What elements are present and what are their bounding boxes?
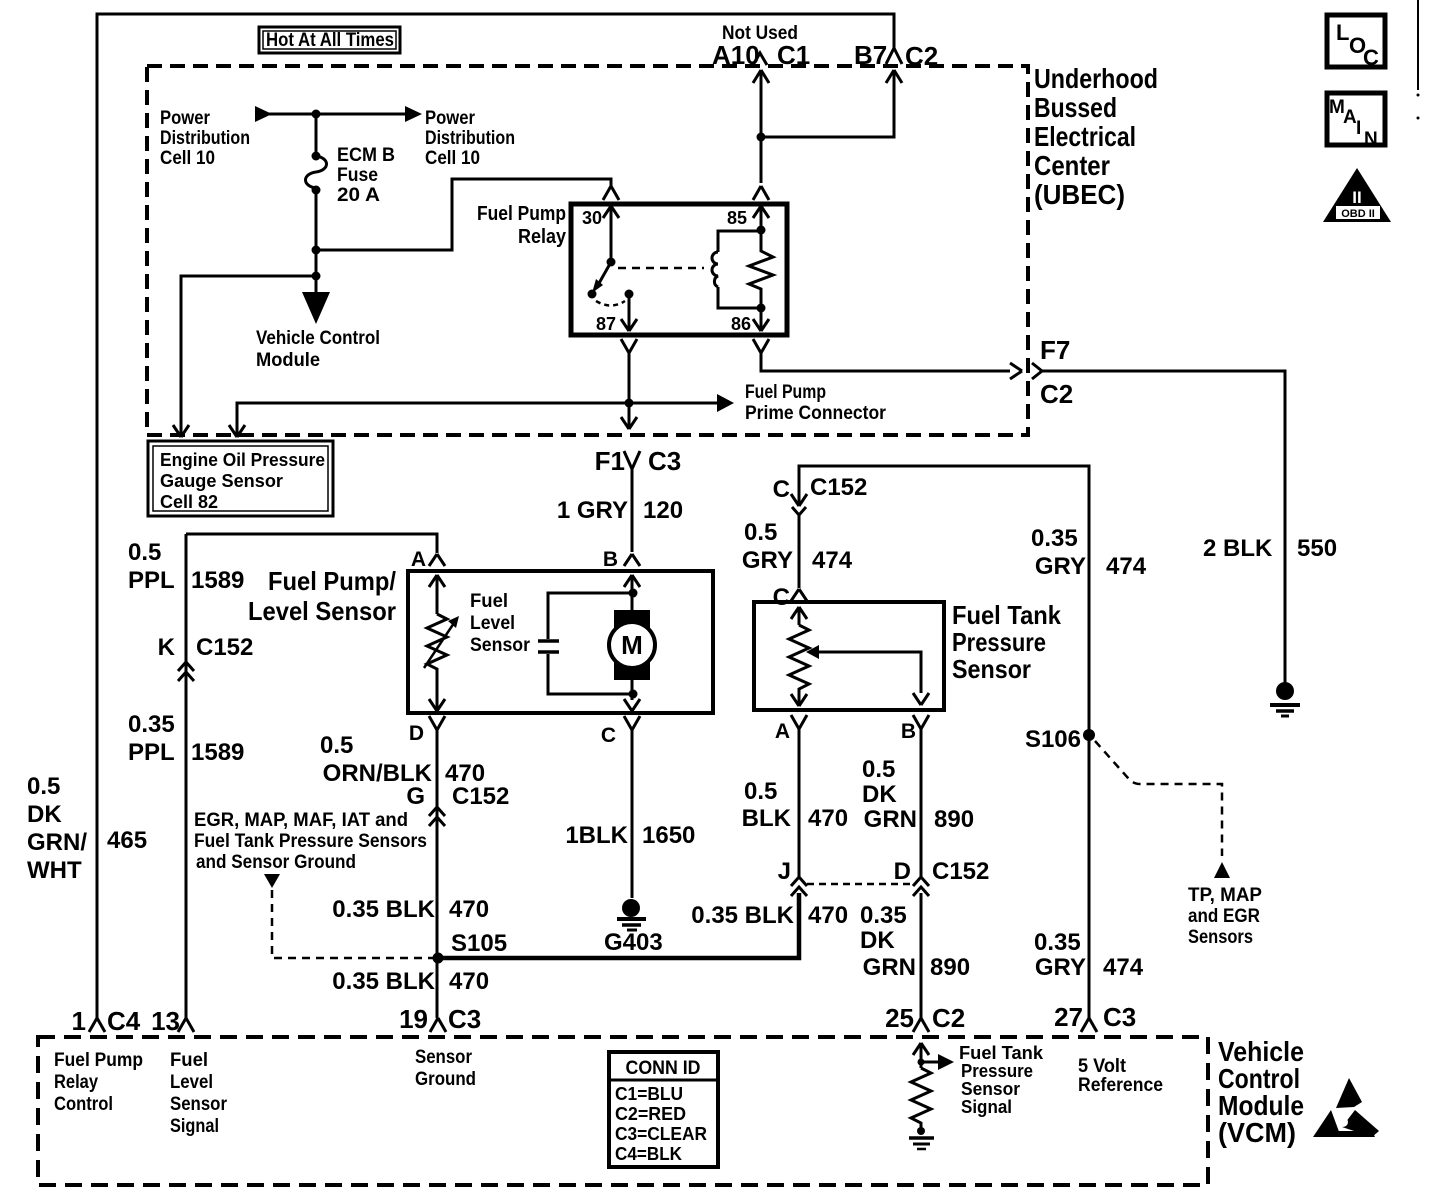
svg-text:and EGR: and EGR bbox=[1188, 906, 1260, 927]
svg-text:GRY: GRY bbox=[1035, 553, 1086, 580]
relay resistor bbox=[749, 230, 773, 308]
wire 0.5 GRY 474 top run bbox=[799, 466, 1089, 1018]
svg-text:Level: Level bbox=[470, 613, 515, 634]
svg-text:465: 465 bbox=[107, 827, 147, 854]
svg-text:Relay: Relay bbox=[54, 1072, 98, 1093]
fuel tank pressure sensor box bbox=[754, 602, 944, 710]
wire sensor ground bus S105 to J bbox=[438, 893, 799, 958]
connector chevron pin B (FTP) bbox=[913, 715, 929, 729]
wire fuse to relay pin 30 bbox=[312, 246, 321, 255]
svg-text:Sensor: Sensor bbox=[952, 654, 1031, 684]
svg-text:Sensors: Sensors bbox=[1188, 927, 1253, 948]
connector F1/C3 bbox=[624, 451, 640, 469]
svg-text:Underhood: Underhood bbox=[1034, 63, 1158, 94]
svg-text:C2: C2 bbox=[1040, 379, 1073, 409]
svg-text:0.5: 0.5 bbox=[320, 732, 353, 759]
switch dashed throw arc bbox=[596, 301, 625, 306]
svg-text:Fuel Pump: Fuel Pump bbox=[477, 203, 566, 225]
wire 0.5 BLK 470 pin A down to J bbox=[798, 729, 801, 878]
svg-text:GRN/: GRN/ bbox=[27, 829, 87, 856]
svg-text:C: C bbox=[601, 724, 616, 747]
svg-text:Fuel Tank: Fuel Tank bbox=[959, 1043, 1044, 1063]
svg-text:19: 19 bbox=[399, 1004, 428, 1034]
svg-text:TP, MAP: TP, MAP bbox=[1188, 885, 1262, 906]
Hot At All Times box bbox=[259, 27, 400, 53]
switch blade bbox=[607, 258, 616, 267]
UBEC dashed boundary box bbox=[147, 66, 1028, 435]
VCM pin 25 internal circuit bbox=[913, 1043, 929, 1068]
svg-text:Electrical: Electrical bbox=[1034, 121, 1136, 152]
svg-text:G: G bbox=[406, 783, 425, 810]
svg-text:Ground: Ground bbox=[415, 1069, 476, 1090]
wire 0.5 ORN/BLK 470 pin D down bbox=[436, 730, 439, 1018]
svg-text:30: 30 bbox=[582, 208, 602, 228]
wire branch to Engine Oil Pressure cell bbox=[312, 272, 321, 281]
svg-text:BLK: BLK bbox=[742, 805, 792, 832]
svg-text:0.35: 0.35 bbox=[1031, 525, 1078, 552]
ground G403 bbox=[622, 899, 640, 917]
svg-text:0.35 BLK: 0.35 BLK bbox=[332, 968, 435, 995]
ground right (2 BLK) bbox=[1276, 682, 1294, 700]
svg-text:0.5: 0.5 bbox=[862, 756, 895, 783]
svg-text:II: II bbox=[1352, 188, 1361, 207]
svg-text:C3=CLEAR: C3=CLEAR bbox=[615, 1124, 707, 1144]
node splice S106 bbox=[1083, 729, 1095, 741]
svg-text:G403: G403 bbox=[604, 929, 663, 956]
wire fuel pump prime connector bbox=[237, 403, 717, 437]
svg-text:F7: F7 bbox=[1040, 335, 1070, 365]
connector chevron below relay pin 86 bbox=[753, 339, 769, 353]
connector B7/C2 female chevron at UBEC boundary bbox=[886, 48, 902, 64]
svg-text:GRN: GRN bbox=[863, 954, 916, 981]
svg-text:Engine Oil Pressure: Engine Oil Pressure bbox=[160, 450, 325, 470]
node B7 entry arrow inside UBEC bbox=[761, 70, 902, 137]
svg-text:DK: DK bbox=[860, 927, 895, 954]
connector A10/C1 chevron (Not Used) bbox=[753, 53, 767, 65]
svg-text:A: A bbox=[1343, 107, 1357, 128]
node splice S105 bbox=[433, 953, 444, 964]
wire 0.35 DK GRN 890 pin D down to 25 bbox=[920, 893, 923, 1018]
svg-text:F1: F1 bbox=[595, 446, 625, 476]
svg-text:C: C bbox=[773, 584, 790, 611]
relay U1 box bbox=[571, 204, 787, 335]
svg-text:CONN ID: CONN ID bbox=[626, 1058, 701, 1079]
svg-text:474: 474 bbox=[812, 547, 853, 574]
wire dashed branch to EGR sensors bbox=[264, 874, 280, 888]
svg-text:0.5: 0.5 bbox=[744, 519, 777, 546]
svg-text:C3: C3 bbox=[448, 1004, 481, 1034]
svg-text:474: 474 bbox=[1106, 553, 1147, 580]
svg-text:Level Sensor: Level Sensor bbox=[248, 596, 396, 626]
svg-text:Cell 82: Cell 82 bbox=[160, 492, 218, 512]
wire pin 86 to F7/C2 bbox=[761, 353, 1010, 371]
connector chevron pin A (FTP) bbox=[791, 715, 807, 729]
svg-text:Fuel Tank: Fuel Tank bbox=[952, 600, 1061, 630]
Engine Oil Pressure Gauge Sensor Cell 82 box bbox=[148, 441, 333, 516]
svg-text:Center: Center bbox=[1034, 150, 1110, 181]
svg-text:Distribution: Distribution bbox=[425, 128, 515, 149]
wire A10 entry arrow down to relay pin 85 bbox=[753, 70, 769, 183]
svg-text:120: 120 bbox=[643, 497, 683, 524]
CONN ID box bbox=[609, 1052, 718, 1167]
svg-text:ECM B: ECM B bbox=[337, 145, 395, 166]
svg-text:OBD II: OBD II bbox=[1341, 208, 1375, 220]
connector chevron pin B bbox=[624, 554, 640, 566]
node power junction bbox=[312, 110, 321, 119]
svg-text:2 BLK: 2 BLK bbox=[1203, 535, 1273, 562]
svg-text:Vehicle Control: Vehicle Control bbox=[256, 328, 380, 349]
wire: 0.5 DK GRN/WHT 465 left/top run from VCM pin 1 to UBEC B7 bbox=[97, 14, 894, 1020]
svg-text:27: 27 bbox=[1054, 1002, 1083, 1032]
svg-text:and Sensor Ground: and Sensor Ground bbox=[196, 852, 356, 873]
svg-text:474: 474 bbox=[1103, 954, 1144, 981]
svg-text:Power: Power bbox=[160, 108, 211, 129]
svg-text:Fuel Pump: Fuel Pump bbox=[745, 382, 826, 403]
svg-text:C4=BLK: C4=BLK bbox=[615, 1144, 682, 1164]
fuse ECM B 20A bbox=[315, 114, 318, 155]
svg-text:1589: 1589 bbox=[191, 739, 244, 766]
svg-text:25: 25 bbox=[885, 1003, 914, 1033]
svg-text:C152: C152 bbox=[196, 634, 253, 661]
svg-text:C3: C3 bbox=[1103, 1002, 1136, 1032]
resistor VCM pull bbox=[911, 1068, 931, 1131]
relay coil bbox=[718, 231, 761, 252]
svg-text:Cell 10: Cell 10 bbox=[425, 148, 480, 169]
connector chevron pin C (sensor) bbox=[791, 589, 807, 601]
svg-text:Reference: Reference bbox=[1078, 1075, 1163, 1096]
connector chevron above relay pin 30 bbox=[603, 186, 619, 200]
svg-text:Fuel Tank Pressure Sensors: Fuel Tank Pressure Sensors bbox=[194, 831, 427, 852]
svg-text:890: 890 bbox=[934, 806, 974, 833]
svg-text:N: N bbox=[1364, 129, 1378, 150]
svg-text:Control: Control bbox=[54, 1094, 113, 1115]
FTP wiper arrow bbox=[806, 645, 819, 659]
svg-text:A10: A10 bbox=[712, 40, 760, 70]
svg-text:0.5: 0.5 bbox=[744, 778, 777, 805]
svg-text:470: 470 bbox=[808, 805, 848, 832]
svg-text:GRN: GRN bbox=[864, 806, 917, 833]
svg-text:B7: B7 bbox=[854, 40, 887, 70]
svg-text:C: C bbox=[773, 476, 790, 503]
svg-text:470: 470 bbox=[449, 968, 489, 995]
svg-text:C1=BLU: C1=BLU bbox=[615, 1084, 683, 1104]
svg-text:Fuel Pump: Fuel Pump bbox=[54, 1050, 143, 1071]
svg-text:0.35 BLK: 0.35 BLK bbox=[332, 896, 435, 923]
connector chevron pin A bbox=[429, 554, 445, 566]
svg-text:D: D bbox=[894, 858, 911, 885]
connector chevron pin C bbox=[624, 716, 640, 730]
svg-text:0.5: 0.5 bbox=[27, 773, 60, 800]
svg-text:A: A bbox=[775, 720, 790, 743]
svg-text:C152: C152 bbox=[452, 783, 509, 810]
svg-text:Hot At All Times: Hot At All Times bbox=[266, 30, 394, 51]
svg-text:C3: C3 bbox=[648, 446, 681, 476]
svg-text:0.35 BLK: 0.35 BLK bbox=[691, 902, 794, 929]
svg-text:B: B bbox=[603, 548, 618, 571]
connector F7/C2 female bbox=[1032, 363, 1042, 379]
svg-text:WHT: WHT bbox=[27, 857, 82, 884]
svg-text:470: 470 bbox=[449, 896, 489, 923]
connector chevron above relay pin 85 bbox=[753, 186, 769, 200]
wire pin B down through motor bbox=[624, 575, 640, 700]
svg-text:1589: 1589 bbox=[191, 567, 244, 594]
svg-text:Fuse: Fuse bbox=[337, 165, 378, 186]
svg-text:A: A bbox=[411, 548, 426, 571]
svg-text:PPL: PPL bbox=[128, 567, 175, 594]
svg-text:Fuel: Fuel bbox=[170, 1050, 208, 1071]
svg-text:1650: 1650 bbox=[642, 822, 695, 849]
capacitor C1 (noise suppression) bbox=[548, 593, 633, 639]
connector chevron below relay pin 87 bbox=[621, 339, 637, 353]
svg-text:Pressure: Pressure bbox=[952, 627, 1046, 657]
svg-text:Signal: Signal bbox=[170, 1116, 219, 1137]
svg-text:M: M bbox=[621, 630, 643, 660]
icon OBD II triangle bbox=[1323, 168, 1391, 222]
svg-text:S106: S106 bbox=[1025, 726, 1081, 753]
svg-text:C1: C1 bbox=[777, 40, 810, 70]
wire 1 BLK 1650 pin C to G403 bbox=[631, 730, 634, 898]
svg-text:GRY: GRY bbox=[1035, 954, 1086, 981]
svg-text:0.35: 0.35 bbox=[860, 902, 907, 929]
svg-text:Distribution: Distribution bbox=[160, 128, 250, 149]
svg-text:I: I bbox=[1356, 118, 1361, 139]
svg-text:Sensor: Sensor bbox=[961, 1079, 1020, 1099]
svg-text:86: 86 bbox=[731, 314, 751, 334]
svg-text:550: 550 bbox=[1297, 535, 1337, 562]
svg-text:C152: C152 bbox=[932, 858, 989, 885]
svg-text:1: 1 bbox=[72, 1006, 86, 1036]
svg-text:Power: Power bbox=[425, 108, 476, 129]
node junction fuel pump prime bbox=[625, 399, 634, 408]
svg-text:PPL: PPL bbox=[128, 739, 175, 766]
ground VCM internal bbox=[917, 1127, 925, 1135]
svg-text:S105: S105 bbox=[451, 930, 507, 957]
svg-text:L: L bbox=[1336, 20, 1349, 45]
svg-text:K: K bbox=[158, 634, 176, 661]
svg-text:0.5: 0.5 bbox=[128, 539, 161, 566]
svg-text:0.35: 0.35 bbox=[128, 711, 175, 738]
svg-text:Signal: Signal bbox=[961, 1097, 1012, 1117]
wire 0.5 PPL 1589 (K leg) bbox=[185, 534, 188, 1018]
fuel level sensor variable resistor bbox=[429, 575, 445, 614]
wire dashed branch to TP MAP EGR sensors bbox=[1095, 741, 1222, 856]
connector chevron pin D bbox=[429, 716, 445, 730]
svg-text:Pressure: Pressure bbox=[961, 1061, 1033, 1081]
svg-text:1 GRY: 1 GRY bbox=[557, 497, 628, 524]
wire 1 GRY 120 bbox=[631, 469, 634, 552]
svg-text:Fuel Pump/: Fuel Pump/ bbox=[268, 566, 396, 596]
svg-text:EGR, MAP, MAF, IAT and: EGR, MAP, MAF, IAT and bbox=[194, 810, 408, 831]
wire power feed with arrows bbox=[255, 106, 272, 122]
svg-text:0.35: 0.35 bbox=[1034, 929, 1081, 956]
relay dashed actuation line bbox=[618, 267, 704, 270]
wire dashed C152 tie J-D bbox=[807, 883, 913, 886]
svg-text:DK: DK bbox=[862, 781, 897, 808]
svg-text:470: 470 bbox=[808, 902, 848, 929]
svg-text:C: C bbox=[1363, 45, 1379, 70]
svg-text:Fuel: Fuel bbox=[470, 591, 508, 612]
icon ESD warning triangle bbox=[1336, 1078, 1362, 1108]
svg-text:5 Volt: 5 Volt bbox=[1078, 1056, 1127, 1077]
svg-text:20 A: 20 A bbox=[337, 185, 380, 206]
svg-text:890: 890 bbox=[930, 954, 970, 981]
svg-text:Module: Module bbox=[256, 350, 320, 371]
icon LOC box bbox=[1327, 15, 1385, 67]
svg-text:Prime Connector: Prime Connector bbox=[745, 403, 887, 424]
svg-text:87: 87 bbox=[596, 314, 616, 334]
svg-text:B: B bbox=[901, 720, 916, 743]
wire 0.5 PPL 1589 top run to pin A bbox=[186, 534, 437, 553]
svg-text:J: J bbox=[778, 858, 791, 885]
svg-text:Relay: Relay bbox=[518, 226, 567, 248]
VCM dashed boundary box bbox=[38, 1037, 1208, 1185]
svg-text:GRY: GRY bbox=[742, 547, 793, 574]
wire 0.5 DK GRN 890 pin B down to D bbox=[920, 729, 923, 878]
wire pin 87 down to UBEC boundary bbox=[621, 353, 637, 429]
FTP sensor potentiometer bbox=[791, 607, 807, 625]
wire arrow to Vehicle Control Module bbox=[302, 292, 330, 324]
svg-text:D: D bbox=[409, 722, 424, 745]
svg-text:C152: C152 bbox=[810, 474, 867, 501]
node junction A10/B7 bbox=[757, 133, 766, 142]
svg-text:C4: C4 bbox=[107, 1006, 141, 1036]
svg-text:(UBEC): (UBEC) bbox=[1034, 179, 1125, 210]
svg-text:Level: Level bbox=[170, 1072, 213, 1093]
scan artifact edge line bbox=[1417, 0, 1419, 90]
icon MAIN box bbox=[1327, 93, 1385, 145]
fuel pump / level sensor box bbox=[408, 571, 713, 713]
svg-text:13: 13 bbox=[151, 1006, 180, 1036]
svg-text:Sensor: Sensor bbox=[170, 1094, 228, 1115]
svg-text:Cell 10: Cell 10 bbox=[160, 148, 215, 169]
svg-text:Gauge Sensor: Gauge Sensor bbox=[160, 471, 283, 491]
wire 2 BLK 550 to ground bbox=[1042, 371, 1285, 683]
svg-text:C2=RED: C2=RED bbox=[615, 1104, 686, 1124]
svg-text:DK: DK bbox=[27, 801, 62, 828]
svg-text:85: 85 bbox=[727, 208, 747, 228]
svg-text:(VCM): (VCM) bbox=[1218, 1117, 1296, 1148]
svg-text:Sensor: Sensor bbox=[415, 1047, 473, 1068]
svg-text:Sensor: Sensor bbox=[470, 635, 531, 656]
svg-text:C2: C2 bbox=[932, 1003, 965, 1033]
svg-text:1BLK: 1BLK bbox=[565, 822, 628, 849]
svg-text:Bussed: Bussed bbox=[1034, 92, 1117, 123]
motor M fuel pump bbox=[614, 610, 650, 630]
svg-text:C2: C2 bbox=[905, 41, 938, 71]
